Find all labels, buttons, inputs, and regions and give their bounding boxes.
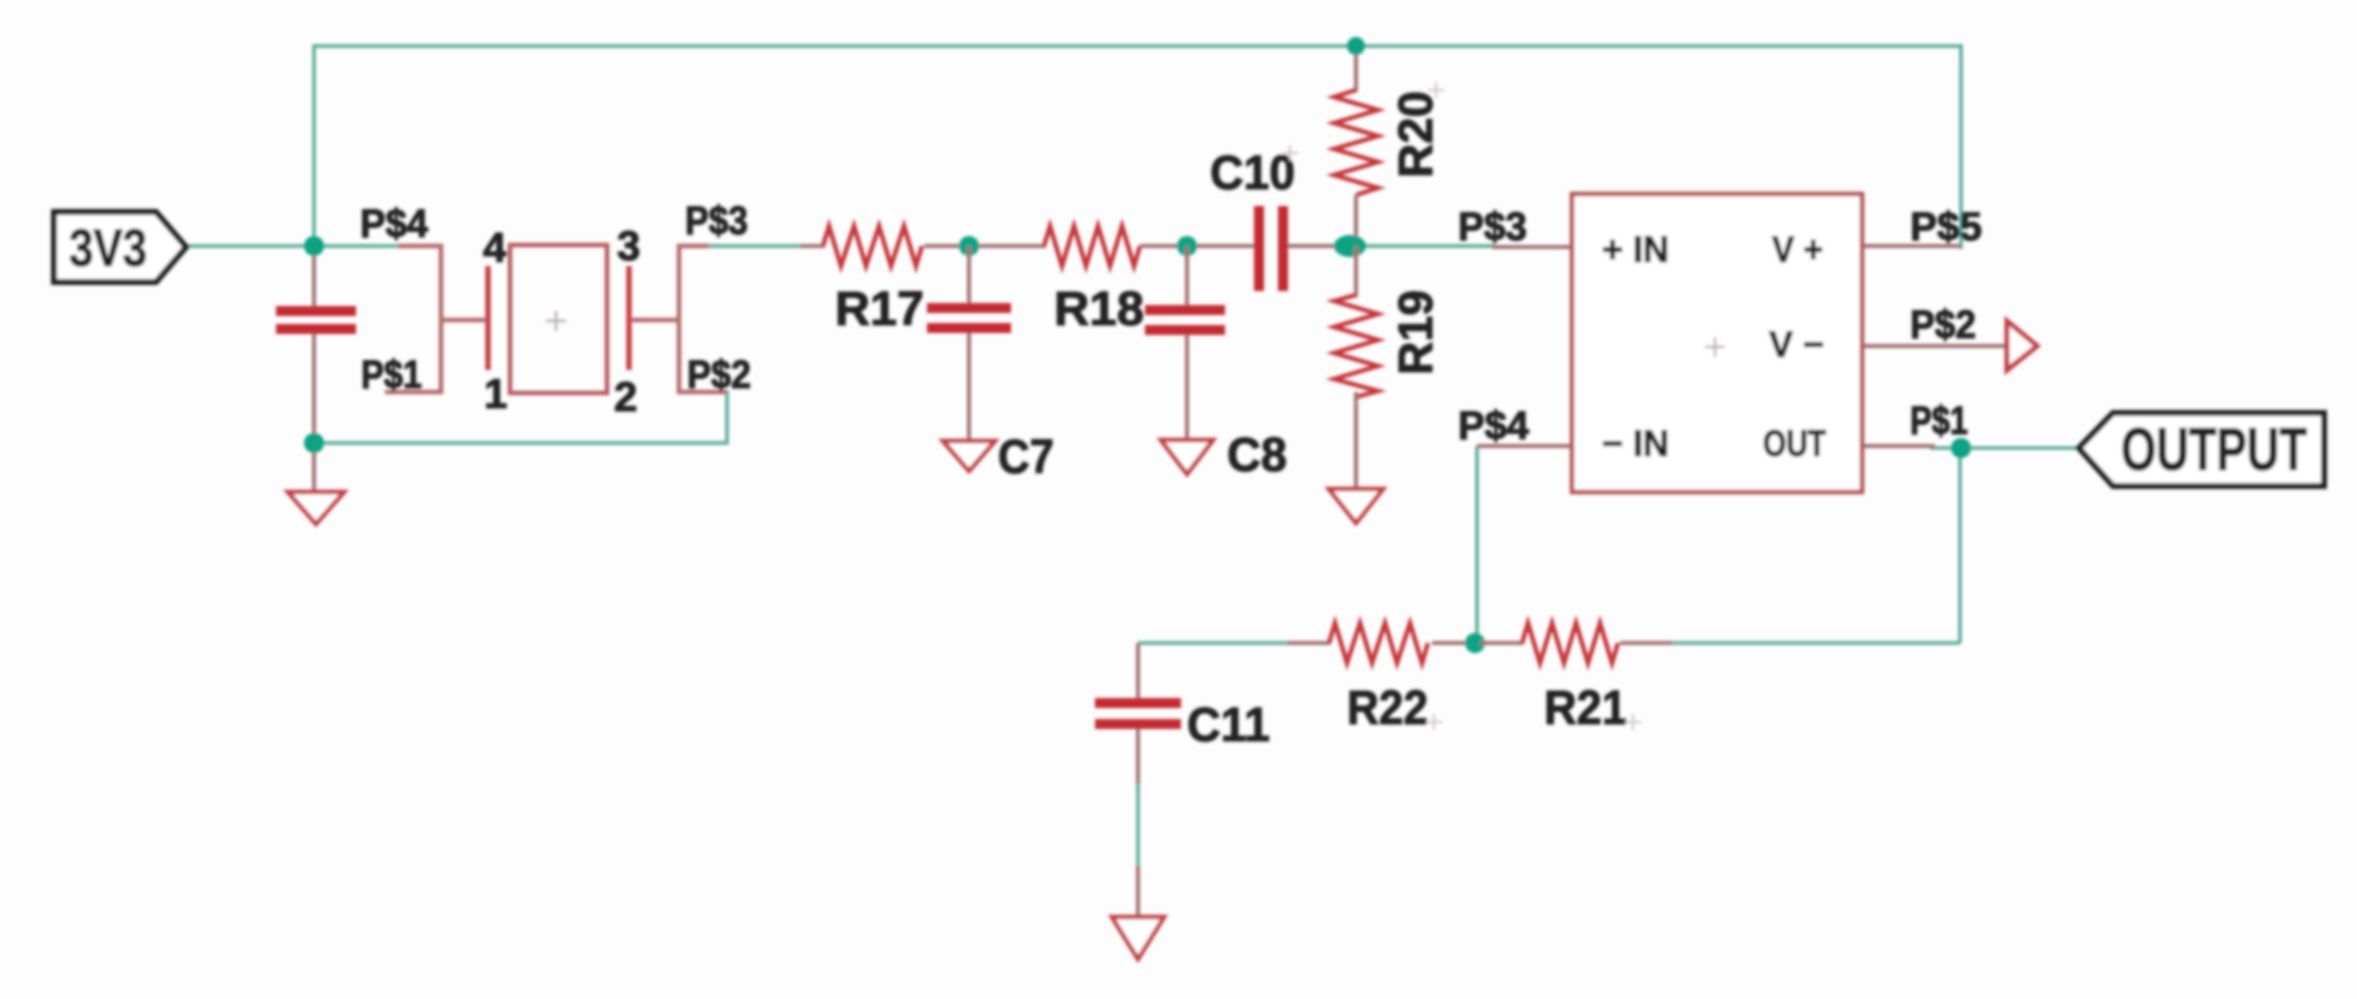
capacitor C7: [967, 246, 971, 303]
ground below 3V3 cap: [288, 492, 344, 524]
resistor R17: [823, 226, 922, 266]
svg-text:P$3: P$3: [685, 199, 748, 243]
wire stub R22 left: [1287, 641, 1331, 645]
svg-text:1: 1: [484, 370, 507, 417]
svg-text:3V3: 3V3: [69, 219, 147, 278]
svg-text:P$2: P$2: [1910, 303, 1976, 347]
svg-text:2: 2: [614, 373, 637, 420]
faint origin cross near R21 label: [1625, 714, 1641, 730]
svg-text:P$5: P$5: [1910, 205, 1982, 249]
wire bottom-left net (cap bottom to filter pins 1/2): [314, 390, 727, 443]
resistor R19 (pull-down): [1354, 246, 1358, 297]
ceramic filter right bracket (pins P$3/P$2): [679, 246, 727, 392]
svg-text:C7: C7: [998, 431, 1054, 484]
svg-text:3: 3: [617, 222, 640, 269]
wire 3V3 tag to junction: [185, 244, 400, 248]
svg-text:V −: V −: [1769, 324, 1824, 365]
node junction bottom-left: [304, 433, 324, 453]
faint origin cross near R22 label: [1426, 714, 1442, 730]
wire C10 node to opamp +IN: [1362, 244, 1495, 248]
svg-text:R19: R19: [1390, 290, 1443, 375]
node junction OUT: [1951, 438, 1971, 458]
ceramic filter body box: [510, 245, 607, 393]
svg-text:R18: R18: [1054, 283, 1144, 336]
node junction top rail / R20: [1347, 37, 1365, 55]
wire stub R17 left: [800, 244, 825, 248]
capacitor (shunt at 3V3): [312, 246, 316, 306]
node junction C7: [959, 236, 979, 256]
svg-text:P$3: P$3: [1458, 205, 1527, 249]
svg-text:P$4: P$4: [1458, 404, 1530, 448]
ceramic filter right electrode: [626, 266, 632, 370]
svg-text:P$4: P$4: [360, 202, 429, 246]
wire filter P$3 to R17: [705, 244, 805, 248]
node junction feedback: [1465, 633, 1485, 653]
opamp U1 pin stub V-: [1862, 344, 2007, 348]
ground below C8: [1161, 440, 1213, 474]
svg-text:C10: C10: [1210, 147, 1295, 200]
opamp U1 pin stub OUT: [1862, 444, 1935, 448]
ground below C7: [943, 441, 995, 471]
resistor R18: [1044, 226, 1140, 266]
ground below R19: [1329, 489, 1383, 523]
wire feedback row left (C11 corner to R22): [1138, 641, 1290, 645]
faint origin cross near R20 label: [1428, 82, 1444, 98]
svg-text:OUT: OUT: [1763, 423, 1826, 464]
svg-text:C8: C8: [1227, 429, 1287, 482]
wire junction to R21: [1480, 641, 1524, 645]
opamp U1 pin stub -IN: [1477, 444, 1572, 448]
node junction at 3V3 wire: [304, 236, 324, 256]
resistor R21: [1522, 623, 1618, 663]
wire opamp -IN (P$4) down to feedback row: [1475, 446, 1479, 643]
svg-text:R22: R22: [1347, 682, 1428, 735]
svg-text:R21: R21: [1544, 682, 1627, 735]
wire R21 right stub: [1620, 641, 1672, 645]
wire OUT junction to OUTPUT tag: [1930, 446, 2079, 450]
OUTPUT tag: [2079, 413, 2324, 486]
faint origin cross near C10: [1282, 145, 1298, 161]
ground below C11: [1112, 917, 1164, 959]
svg-text:4: 4: [483, 224, 507, 271]
opamp origin cross: [1705, 337, 1725, 357]
resistor R20 (pull-up): [1354, 46, 1358, 92]
capacitor C8: [1185, 246, 1189, 305]
ceramic filter left electrode: [441, 318, 485, 323]
svg-text:P$1: P$1: [361, 353, 422, 397]
wire OUT junction down to feedback row: [1958, 448, 1962, 643]
wire R22 to junction: [1432, 641, 1470, 645]
svg-text:R20: R20: [1390, 91, 1443, 178]
wire C11 middle segment: [1136, 782, 1140, 868]
svg-text:P$2: P$2: [687, 353, 751, 397]
svg-text:+ IN: + IN: [1602, 229, 1669, 270]
wire feedback row right (R21 to right corner): [1668, 641, 1960, 645]
capacitor C11: [1136, 643, 1140, 698]
P$2 open arrow: [2007, 321, 2037, 370]
capacitor C10 (series): [1254, 206, 1264, 291]
svg-text:− IN: − IN: [1602, 423, 1669, 464]
supply tag 3V3: [54, 212, 186, 282]
node junction C8: [1177, 236, 1197, 256]
opamp U1 pin stub +IN: [1492, 245, 1572, 249]
wire top rail net 3V3: [314, 46, 1961, 249]
svg-text:V +: V +: [1772, 229, 1823, 270]
svg-text:OUTPUT: OUTPUT: [2121, 416, 2307, 483]
svg-text:P$1: P$1: [1910, 399, 1968, 443]
filter body origin cross: [546, 311, 566, 331]
opamp U1 pin stub V+: [1862, 244, 1961, 248]
ceramic filter left bracket (pins P$4/P$1): [385, 246, 441, 392]
resistor R22: [1329, 623, 1428, 663]
wire R18 to C10: [1140, 244, 1256, 248]
svg-text:C11: C11: [1187, 699, 1270, 752]
opamp U1 body: [1572, 194, 1862, 492]
wire R17 to R18: [924, 244, 1046, 248]
node junction C10/R20/R19: [1334, 235, 1366, 257]
svg-text:R17: R17: [835, 283, 924, 336]
